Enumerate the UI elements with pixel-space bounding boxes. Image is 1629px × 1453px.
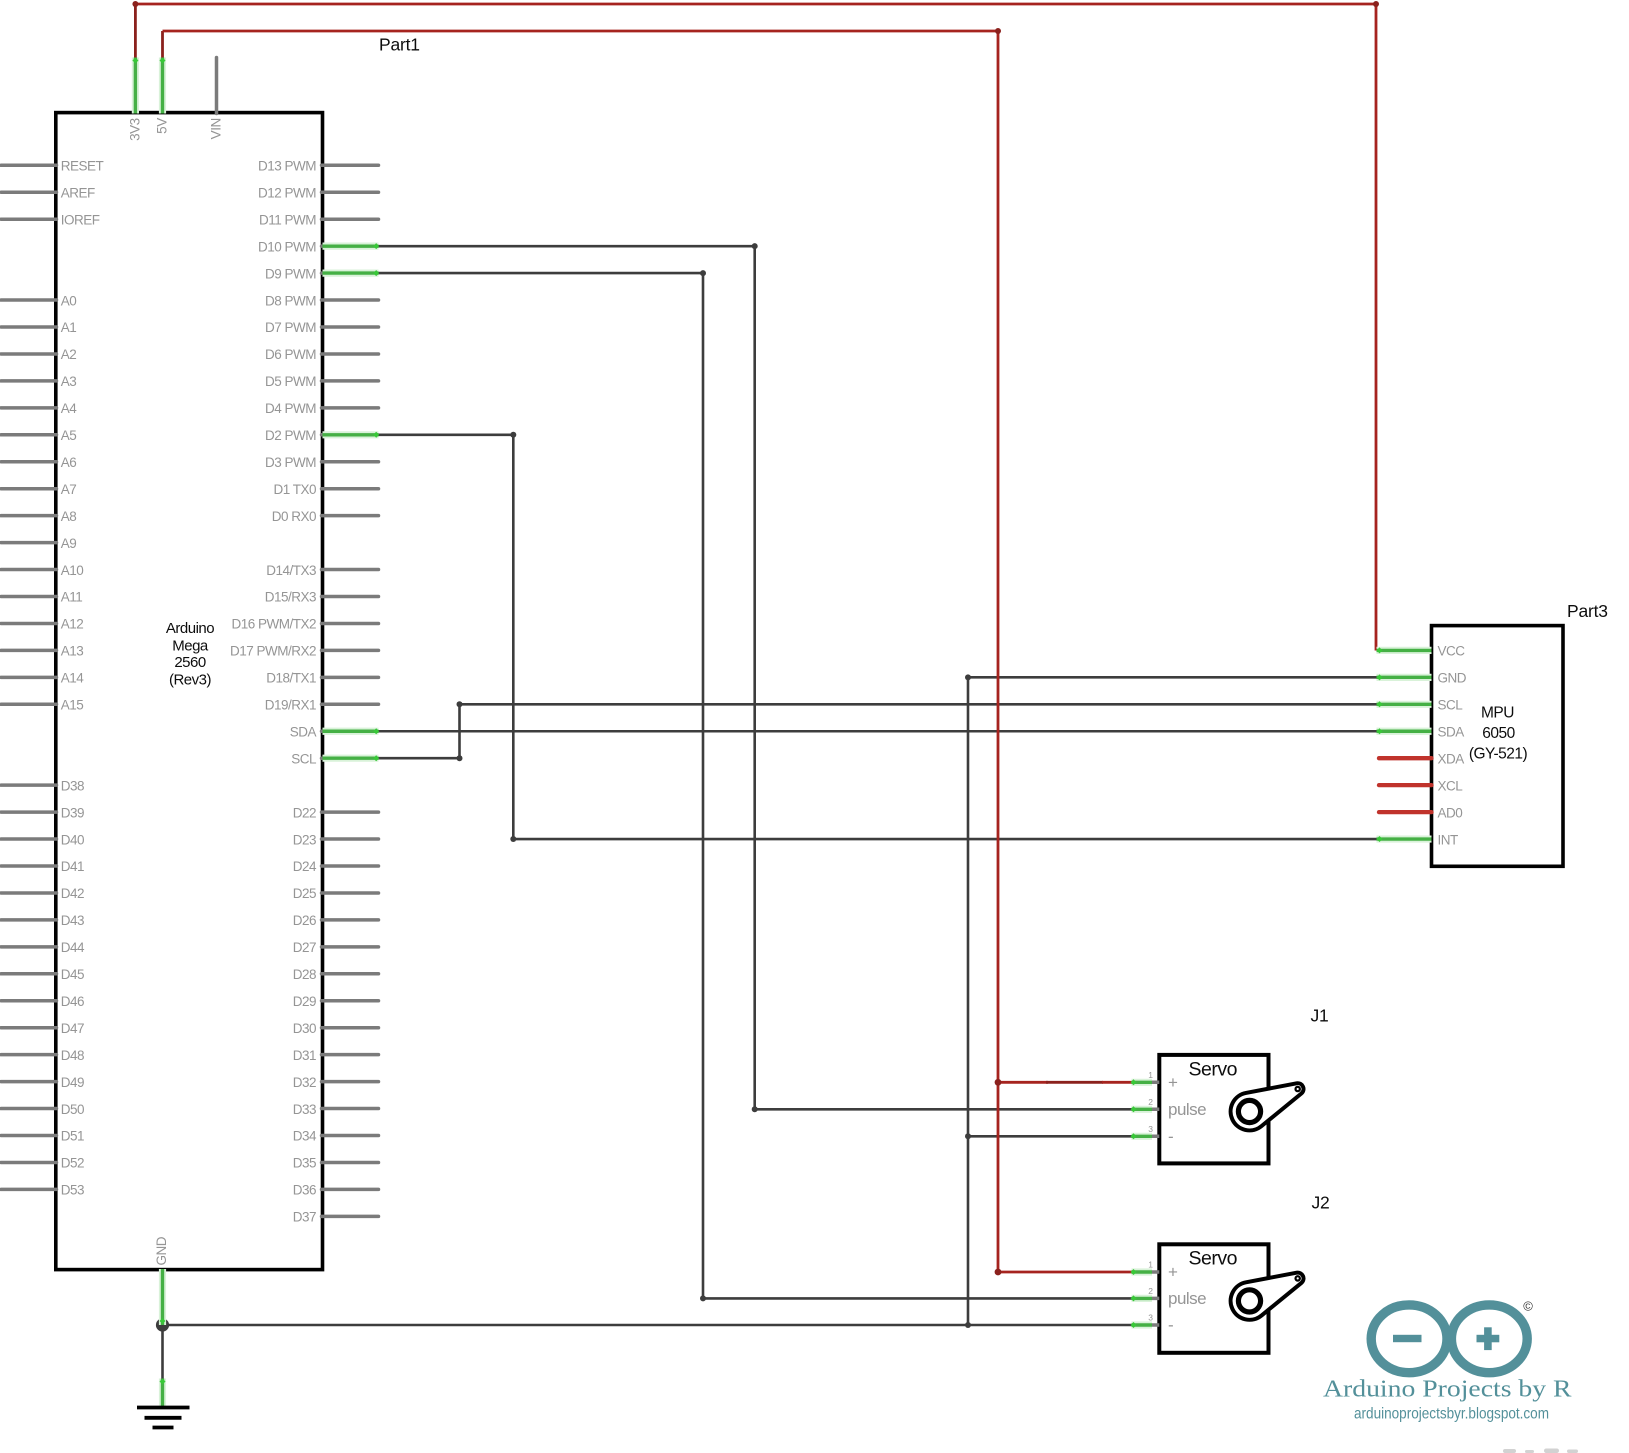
pin 2 pulse (servo J1) bbox=[1131, 1097, 1207, 1119]
svg-text:D7 PWM: D7 PWM bbox=[265, 320, 316, 335]
pin A1 (Arduino left) bbox=[1, 320, 76, 335]
pin A10 (Arduino left) bbox=[1, 563, 83, 578]
pin D19/RX1 (Arduino right) bbox=[265, 698, 379, 713]
pin AREF (Arduino left) bbox=[1, 185, 95, 200]
svg-text:D45: D45 bbox=[61, 967, 84, 982]
svg-text:A6: A6 bbox=[61, 455, 77, 470]
svg-text:Servo: Servo bbox=[1188, 1248, 1237, 1270]
pin D39 (Arduino left) bbox=[1, 805, 84, 820]
label Part3 bbox=[1567, 601, 1608, 621]
svg-text:D40: D40 bbox=[61, 832, 84, 847]
svg-text:D25: D25 bbox=[293, 886, 316, 901]
svg-text:D27: D27 bbox=[293, 940, 316, 955]
pin XCL (MPU) bbox=[1379, 778, 1463, 793]
svg-text:©: © bbox=[1523, 1299, 1533, 1314]
pin 3 - (servo J2) bbox=[1131, 1313, 1174, 1335]
pin SDA (MPU) bbox=[1377, 724, 1465, 739]
svg-text:XCL: XCL bbox=[1438, 778, 1464, 793]
svg-text:D0 RX0: D0 RX0 bbox=[272, 509, 316, 524]
pin SCL (MPU) bbox=[1377, 698, 1464, 713]
pin D50 (Arduino left) bbox=[1, 1102, 84, 1117]
pin D43 (Arduino left) bbox=[1, 913, 84, 928]
pin D35 (Arduino right) bbox=[293, 1156, 379, 1171]
pin D53 (Arduino left) bbox=[1, 1183, 84, 1198]
pin RESET (Arduino left) bbox=[1, 159, 104, 174]
servo J2 body bbox=[1159, 1244, 1268, 1353]
svg-text:D46: D46 bbox=[61, 994, 84, 1009]
svg-text:A4: A4 bbox=[61, 401, 78, 416]
svg-text:A14: A14 bbox=[61, 671, 85, 686]
pin D11 PWM (Arduino right) bbox=[259, 212, 379, 227]
svg-text:+: + bbox=[1168, 1263, 1178, 1282]
pin 1 + (servo J2) bbox=[1131, 1260, 1179, 1282]
svg-text:D51: D51 bbox=[61, 1129, 84, 1144]
svg-text:D35: D35 bbox=[293, 1156, 316, 1171]
svg-text:D32: D32 bbox=[293, 1075, 316, 1090]
pin D13 PWM (Arduino right) bbox=[258, 159, 379, 174]
svg-text:D5 PWM: D5 PWM bbox=[265, 374, 316, 389]
pin D7 PWM (Arduino right) bbox=[265, 320, 379, 335]
svg-text:Arduino: Arduino bbox=[166, 620, 214, 637]
pin A12 (Arduino left) bbox=[1, 617, 83, 632]
pin D22 (Arduino right) bbox=[293, 805, 379, 820]
svg-text:D38: D38 bbox=[61, 778, 84, 793]
wire 5V to servo J1/J2 + (red) bbox=[163, 28, 1132, 1275]
svg-text:D43: D43 bbox=[61, 913, 84, 928]
svg-text:D13 PWM: D13 PWM bbox=[258, 159, 316, 174]
svg-text:A3: A3 bbox=[61, 374, 77, 389]
svg-text:D50: D50 bbox=[61, 1102, 84, 1117]
svg-text:D3 PWM: D3 PWM bbox=[265, 455, 316, 470]
svg-text:D33: D33 bbox=[293, 1102, 316, 1117]
pin D15/RX3 (Arduino right) bbox=[265, 590, 379, 605]
svg-text:A11: A11 bbox=[61, 590, 83, 605]
svg-text:D11 PWM: D11 PWM bbox=[259, 212, 316, 227]
Arduino Projects by R logo bbox=[1323, 1299, 1572, 1423]
svg-text:RESET: RESET bbox=[61, 159, 104, 174]
label Part1 bbox=[379, 35, 420, 55]
svg-text:D49: D49 bbox=[61, 1075, 84, 1090]
svg-text:D15/RX3: D15/RX3 bbox=[265, 590, 316, 605]
pin GND (MPU) bbox=[1377, 671, 1467, 686]
svg-text:+: + bbox=[1168, 1073, 1178, 1092]
svg-text:5V: 5V bbox=[155, 118, 170, 134]
pin D14/TX3 (Arduino right) bbox=[266, 563, 378, 578]
pin A15 (Arduino left) bbox=[1, 698, 83, 713]
pin D3 PWM (Arduino right) bbox=[265, 455, 379, 470]
svg-text:J1: J1 bbox=[1311, 1006, 1329, 1026]
servo J1 body bbox=[1159, 1055, 1268, 1164]
MPU 6050 (GY-521) module (Part3) body bbox=[1432, 626, 1564, 867]
svg-text:D1 TX0: D1 TX0 bbox=[273, 482, 316, 497]
svg-text:A9: A9 bbox=[61, 536, 77, 551]
svg-text:Arduino Projects by R: Arduino Projects by R bbox=[1323, 1377, 1572, 1403]
svg-text:VIN: VIN bbox=[209, 118, 224, 139]
svg-text:D41: D41 bbox=[61, 859, 84, 874]
pin D26 (Arduino right) bbox=[293, 913, 379, 928]
pin SCL (Arduino right) bbox=[291, 751, 379, 766]
pin D2 PWM (Arduino right) bbox=[265, 428, 379, 443]
wire 3V3 to MPU VCC (red) bbox=[132, 1, 1379, 651]
svg-text:GND: GND bbox=[154, 1236, 169, 1265]
pin D49 (Arduino left) bbox=[1, 1075, 84, 1090]
pin D5 PWM (Arduino right) bbox=[265, 374, 379, 389]
pin A13 (Arduino left) bbox=[1, 644, 83, 659]
pin A14 (Arduino left) bbox=[1, 671, 84, 686]
svg-text:pulse: pulse bbox=[1168, 1289, 1206, 1308]
svg-text:D16 PWM/TX2: D16 PWM/TX2 bbox=[231, 617, 316, 632]
svg-text:IOREF: IOREF bbox=[61, 212, 100, 227]
pin D24 (Arduino right) bbox=[293, 859, 379, 874]
svg-text:arduinoprojectsbyr.blogspot.co: arduinoprojectsbyr.blogspot.com bbox=[1354, 1405, 1549, 1422]
svg-text:3V3: 3V3 bbox=[127, 118, 142, 141]
svg-text:D37: D37 bbox=[293, 1210, 316, 1225]
pin A8 (Arduino left) bbox=[1, 509, 76, 524]
decorative faint marks (cropped) bbox=[1503, 1449, 1578, 1453]
pin D47 (Arduino left) bbox=[1, 1021, 84, 1036]
servo J1 horn icon bbox=[1231, 1083, 1304, 1130]
pin D51 (Arduino left) bbox=[1, 1129, 84, 1144]
pin D16 PWM/TX2 (Arduino right) bbox=[231, 617, 378, 632]
svg-text:D8 PWM: D8 PWM bbox=[265, 293, 316, 308]
svg-text:AREF: AREF bbox=[61, 185, 95, 200]
svg-text:Part3: Part3 bbox=[1567, 601, 1608, 621]
svg-text:D31: D31 bbox=[293, 1048, 316, 1063]
svg-text:A12: A12 bbox=[61, 617, 84, 632]
svg-text:D26: D26 bbox=[293, 913, 316, 928]
pin A7 (Arduino left) bbox=[1, 482, 76, 497]
pin A5 (Arduino left) bbox=[1, 428, 76, 443]
svg-text:D29: D29 bbox=[293, 994, 316, 1009]
svg-text:D24: D24 bbox=[293, 859, 317, 874]
svg-text:D9 PWM: D9 PWM bbox=[265, 266, 316, 281]
pin A11 (Arduino left) bbox=[1, 590, 82, 605]
svg-text:XDA: XDA bbox=[1438, 751, 1465, 766]
svg-text:D6 PWM: D6 PWM bbox=[265, 347, 316, 362]
label J2 bbox=[1312, 1193, 1330, 1213]
pin D36 (Arduino right) bbox=[293, 1183, 379, 1198]
pin D38 (Arduino left) bbox=[1, 778, 84, 793]
svg-text:(GY-521): (GY-521) bbox=[1469, 746, 1528, 763]
pin A6 (Arduino left) bbox=[1, 455, 76, 470]
svg-text:D39: D39 bbox=[61, 805, 84, 820]
pin A9 (Arduino left) bbox=[1, 536, 76, 551]
wire SCL to MPU SCL bbox=[379, 701, 1377, 761]
pin D6 PWM (Arduino right) bbox=[265, 347, 379, 362]
pin D0 RX0 (Arduino right) bbox=[272, 509, 379, 524]
pin D17 PWM/RX2 (Arduino right) bbox=[230, 644, 379, 659]
pin 2 pulse (servo J2) bbox=[1131, 1286, 1207, 1308]
pin XDA (MPU) bbox=[1379, 751, 1464, 766]
pin D48 (Arduino left) bbox=[1, 1048, 84, 1063]
svg-text:A8: A8 bbox=[61, 509, 77, 524]
svg-text:-: - bbox=[1168, 1316, 1173, 1335]
svg-text:D23: D23 bbox=[293, 832, 316, 847]
pin IOREF (Arduino left) bbox=[1, 212, 100, 227]
svg-text:6050: 6050 bbox=[1482, 725, 1515, 742]
pin D44 (Arduino left) bbox=[1, 940, 85, 955]
svg-text:SCL: SCL bbox=[291, 751, 317, 766]
svg-text:MPU: MPU bbox=[1481, 705, 1514, 722]
pin D32 (Arduino right) bbox=[293, 1075, 379, 1090]
pin D30 (Arduino right) bbox=[293, 1021, 379, 1036]
svg-text:pulse: pulse bbox=[1168, 1100, 1206, 1119]
pin D31 (Arduino right) bbox=[293, 1048, 379, 1063]
svg-text:D22: D22 bbox=[293, 805, 316, 820]
pin D52 (Arduino left) bbox=[1, 1156, 84, 1171]
pin D42 (Arduino left) bbox=[1, 886, 84, 901]
pin D12 PWM (Arduino right) bbox=[258, 185, 379, 200]
svg-text:D44: D44 bbox=[61, 940, 85, 955]
svg-text:A10: A10 bbox=[61, 563, 84, 578]
pin AD0 (MPU) bbox=[1379, 805, 1462, 820]
pin A3 (Arduino left) bbox=[1, 374, 76, 389]
pin A4 (Arduino left) bbox=[1, 401, 77, 416]
pin D40 (Arduino left) bbox=[1, 832, 84, 847]
svg-text:SDA: SDA bbox=[1438, 724, 1465, 739]
label J1 bbox=[1311, 1006, 1329, 1026]
pin D37 (Arduino right) bbox=[293, 1210, 379, 1225]
svg-text:D47: D47 bbox=[61, 1021, 84, 1036]
pin A0 (Arduino left) bbox=[1, 293, 76, 308]
wire D10 PWM to J1 pulse bbox=[379, 243, 1132, 1112]
pin 5V (Arduino top) bbox=[155, 58, 170, 134]
svg-text:A2: A2 bbox=[61, 347, 77, 362]
svg-text:D34: D34 bbox=[293, 1129, 317, 1144]
svg-text:A13: A13 bbox=[61, 644, 84, 659]
svg-text:Servo: Servo bbox=[1188, 1058, 1237, 1080]
svg-text:D30: D30 bbox=[293, 1021, 316, 1036]
pin D1 TX0 (Arduino right) bbox=[273, 482, 378, 497]
pin VCC (MPU) bbox=[1377, 644, 1466, 659]
svg-text:D19/RX1: D19/RX1 bbox=[265, 698, 316, 713]
pin A2 (Arduino left) bbox=[1, 347, 76, 362]
svg-text:D10 PWM: D10 PWM bbox=[258, 239, 316, 254]
svg-text:D48: D48 bbox=[61, 1048, 84, 1063]
svg-text:D4 PWM: D4 PWM bbox=[265, 401, 316, 416]
pin 3V3 (Arduino top) bbox=[127, 58, 142, 141]
wire ground net: Arduino GND junction to J1/J2 minus and MPU GND bbox=[163, 674, 1377, 1378]
pin D25 (Arduino right) bbox=[293, 886, 379, 901]
ground symbol bbox=[137, 1379, 190, 1428]
svg-text:D12 PWM: D12 PWM bbox=[258, 185, 316, 200]
svg-text:A5: A5 bbox=[61, 428, 77, 443]
pin D18/TX1 (Arduino right) bbox=[266, 671, 378, 686]
svg-text:SCL: SCL bbox=[1438, 698, 1464, 713]
pin D28 (Arduino right) bbox=[293, 967, 379, 982]
junction: GND node bbox=[156, 1318, 169, 1331]
pin D45 (Arduino left) bbox=[1, 967, 84, 982]
svg-text:D17 PWM/RX2: D17 PWM/RX2 bbox=[230, 644, 316, 659]
svg-text:-: - bbox=[1168, 1127, 1173, 1146]
svg-text:Part1: Part1 bbox=[379, 35, 420, 55]
svg-text:2560: 2560 bbox=[174, 654, 206, 671]
svg-text:(Rev3): (Rev3) bbox=[169, 672, 212, 689]
pin D9 PWM (Arduino right) bbox=[265, 266, 379, 281]
svg-text:A1: A1 bbox=[61, 320, 77, 335]
Arduino Mega 2560 U1 (Part1) body bbox=[56, 113, 323, 1270]
svg-text:A0: A0 bbox=[61, 293, 77, 308]
servo J2 horn icon bbox=[1231, 1273, 1304, 1320]
pin INT (MPU) bbox=[1377, 832, 1459, 847]
pin D34 (Arduino right) bbox=[293, 1129, 379, 1144]
svg-text:D52: D52 bbox=[61, 1156, 84, 1171]
svg-text:Mega: Mega bbox=[172, 637, 209, 654]
svg-text:A7: A7 bbox=[61, 482, 77, 497]
svg-text:D2 PWM: D2 PWM bbox=[265, 428, 316, 443]
svg-text:SDA: SDA bbox=[290, 724, 317, 739]
pin 1 + (servo J1) bbox=[1131, 1070, 1179, 1092]
wire D2 PWM to MPU INT bbox=[379, 432, 1377, 842]
svg-text:D53: D53 bbox=[61, 1183, 84, 1198]
pin VIN (Arduino top) bbox=[209, 58, 224, 140]
svg-text:INT: INT bbox=[1438, 832, 1459, 847]
pin SDA (Arduino right) bbox=[290, 724, 379, 739]
svg-text:D14/TX3: D14/TX3 bbox=[266, 563, 316, 578]
svg-text:D42: D42 bbox=[61, 886, 84, 901]
wire SDA to MPU SDA bbox=[379, 730, 1377, 733]
pin D8 PWM (Arduino right) bbox=[265, 293, 379, 308]
pin D4 PWM (Arduino right) bbox=[265, 401, 379, 416]
pin D33 (Arduino right) bbox=[293, 1102, 379, 1117]
svg-text:J2: J2 bbox=[1312, 1193, 1330, 1213]
pin D23 (Arduino right) bbox=[293, 832, 379, 847]
pin D46 (Arduino left) bbox=[1, 994, 84, 1009]
pin GND (Arduino bottom) bbox=[154, 1236, 169, 1325]
pin D27 (Arduino right) bbox=[293, 940, 379, 955]
svg-text:D18/TX1: D18/TX1 bbox=[266, 671, 316, 686]
svg-text:AD0: AD0 bbox=[1438, 805, 1463, 820]
wire D9 PWM to J2 pulse bbox=[379, 270, 1132, 1301]
svg-text:GND: GND bbox=[1438, 671, 1467, 686]
svg-text:D36: D36 bbox=[293, 1183, 316, 1198]
pin 3 - (servo J1) bbox=[1131, 1124, 1174, 1146]
svg-text:D28: D28 bbox=[293, 967, 316, 982]
pin D41 (Arduino left) bbox=[1, 859, 84, 874]
pin D29 (Arduino right) bbox=[293, 994, 379, 1009]
svg-text:A15: A15 bbox=[61, 698, 84, 713]
svg-text:VCC: VCC bbox=[1438, 644, 1466, 659]
pin D10 PWM (Arduino right) bbox=[258, 239, 379, 254]
